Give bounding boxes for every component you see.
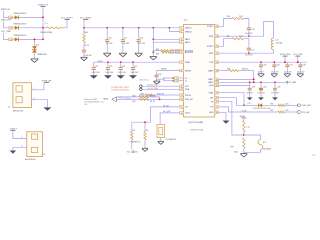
wire: [243, 39, 249, 49]
svg-text:13: 13: [181, 95, 183, 97]
pin 14 ILIM_HZ: [180, 98, 184, 101]
svg-text:2.2R: 2.2R: [239, 16, 243, 18]
svg-text:C17: C17: [124, 37, 127, 39]
capacitor C23: [107, 62, 109, 67]
svg-text:R27: R27: [227, 36, 230, 38]
svg-text:1uH 10A: 1uH 10A: [276, 42, 283, 45]
wire CE: [150, 107, 179, 122]
svg-text:S3 GND_QON_DET1: S3 GND_QON_DET1: [111, 89, 129, 91]
svg-text:C28: C28: [158, 74, 161, 76]
node: [248, 52, 250, 54]
svg-text:0.1uF 50V: 0.1uF 50V: [83, 55, 92, 57]
ground: [271, 73, 277, 75]
svg-text:11: 11: [10, 39, 12, 41]
wire: [4, 21, 9, 28]
capacitor C27 47nF: [247, 47, 251, 49]
resistor R92: [229, 70, 238, 72]
wire: [93, 69, 95, 75]
svg-text:10uF 25V: 10uF 25V: [284, 71, 292, 73]
pin 28 QON: [215, 84, 219, 87]
ground: [223, 121, 230, 124]
wire BAT2 VCC_BAT rail: [219, 81, 286, 83]
node: [169, 27, 171, 29]
svg-text:7: 7: [181, 62, 182, 64]
svg-text:C33: C33: [252, 86, 255, 88]
fuse F1 TE0608-CRMF: [43, 27, 47, 29]
svg-text:19: 19: [216, 71, 218, 73]
wire: [107, 69, 109, 75]
wire QON: [219, 82, 250, 85]
node: [248, 35, 250, 37]
svg-text:VBUS_INT: VBUS_INT: [1, 20, 12, 22]
svg-text:10: 10: [176, 81, 178, 83]
wire: [19, 27, 43, 29]
svg-text:R99: R99: [231, 147, 234, 149]
pin 5 ACDRV1: [180, 49, 184, 52]
wire: [249, 90, 251, 98]
node: [152, 38, 154, 40]
svg-text:12: 12: [181, 89, 183, 91]
svg-text:R_ILIM=KILIM/RILIM T_Lxx: R_ILIM=KILIM/RILIM T_Lxx: [84, 102, 104, 104]
svg-text:PMID: PMID: [185, 62, 191, 64]
ground: [150, 56, 157, 58]
wire: [260, 90, 262, 98]
pin 23 SW1: [215, 35, 219, 38]
diode D1 PMEG6010ELR: [15, 15, 19, 19]
svg-text:C31: C31: [290, 64, 293, 66]
wire: [37, 83, 44, 90]
capacitor C17: [122, 28, 124, 40]
wire: [243, 149, 245, 154]
wire: [138, 42, 140, 54]
wire ILIM lower: [117, 98, 180, 100]
ground: [258, 97, 264, 100]
wire BATP: [219, 70, 229, 72]
pin 18 BAT1: [215, 78, 219, 81]
ground: [10, 151, 17, 154]
svg-text:REGN: REGN: [103, 99, 109, 101]
svg-text:VCC_USB: VCC_USB: [1, 31, 11, 33]
ground: [297, 73, 303, 75]
svg-text:S3_TP: S3_TP: [150, 101, 156, 103]
jumper J8: [140, 88, 143, 91]
pin 22 BTST2: [215, 45, 219, 48]
pin 16: [9, 16, 13, 19]
svg-text:R26: R26: [227, 16, 230, 18]
wire: [244, 135, 261, 139]
wire: [285, 111, 298, 113]
svg-text:10uF 50V: 10uF 50V: [118, 72, 127, 74]
capacitor C24: [120, 62, 122, 67]
connector J6: [13, 83, 32, 108]
node: [83, 27, 85, 29]
pin 26 INT: [215, 96, 219, 99]
svg-text:PMEG6010ELR: PMEG6010ELR: [14, 13, 27, 15]
pin 20 SYS: [215, 61, 219, 64]
svg-text:R68: R68: [156, 49, 159, 51]
node: [249, 81, 251, 83]
capacitor C18: [138, 28, 140, 40]
svg-text:ILIM_HZ: ILIM_HZ: [185, 99, 193, 101]
TVS diode D19 SMBJ24CA: [34, 39, 36, 46]
capacitor C25: [132, 62, 134, 67]
svg-text:REGN: REGN: [161, 69, 167, 71]
node: [132, 61, 134, 63]
wire: [285, 104, 298, 106]
ground: [117, 75, 125, 79]
node: [284, 61, 286, 63]
wire PROG: [139, 94, 180, 96]
pin 15: [9, 26, 13, 29]
svg-text:PMEG6010ELR: PMEG6010ELR: [14, 24, 27, 26]
wire: [248, 50, 250, 53]
node: [297, 61, 299, 63]
svg-text:8: 8: [181, 70, 182, 72]
svg-text:VCC: VCC: [127, 151, 131, 153]
svg-text:C27: C27: [251, 49, 254, 51]
svg-text:QTLP600C4TR-PB 1-PB: QTLP600C4TR-PB 1-PB: [253, 108, 271, 110]
node: [253, 79, 255, 81]
pin 10 D-: [175, 79, 179, 82]
pin 27 STAT: [215, 91, 219, 94]
svg-text:S3_I2C_SCL: S3_I2C_SCL: [148, 85, 158, 87]
capacitor C33: [249, 82, 251, 88]
wire: [253, 71, 255, 83]
svg-text:A09-0517-ND: A09-0517-ND: [13, 109, 24, 112]
svg-text:Measured by MSP: Measured by MSP: [84, 99, 97, 101]
ground: [240, 153, 247, 155]
svg-text:VCM_TN: VCM_TN: [157, 94, 165, 96]
svg-text:0.1uF 50V: 0.1uF 50V: [91, 72, 100, 74]
wire PG row: [219, 107, 279, 112]
resistor R60: [146, 94, 154, 96]
wire: [248, 30, 250, 37]
node: [152, 27, 154, 29]
resistor R68: [153, 50, 161, 52]
wire BAT1: [219, 78, 254, 80]
wire: [262, 104, 280, 106]
svg-text:30.1k: 30.1k: [234, 151, 238, 153]
svg-text:21: 21: [216, 53, 218, 55]
wire: [160, 138, 162, 142]
jumper J7: [140, 85, 143, 88]
wire BTST2: [219, 39, 232, 47]
svg-text:J4: J4: [43, 154, 45, 156]
wire VAC2: [153, 39, 183, 42]
wire node: [132, 121, 151, 123]
ground: [90, 75, 98, 79]
wire: [286, 67, 288, 74]
wire: [4, 11, 9, 18]
svg-text:VBUS_IN: VBUS_IN: [1, 9, 10, 11]
wire: [152, 52, 154, 56]
resistor R98 5.1k: [243, 118, 245, 120]
pin 4 VAC2: [180, 41, 184, 44]
wire: [159, 97, 161, 99]
ground: [81, 56, 88, 58]
pin 30 GND: [215, 111, 219, 114]
connector J4: [27, 132, 43, 157]
svg-text:20.7k: 20.7k: [84, 45, 88, 47]
svg-text:QON: QON: [185, 113, 190, 115]
diode D3 PMEG6010ELR: [15, 37, 19, 41]
wire: [243, 19, 249, 28]
svg-text:U10: U10: [184, 20, 187, 22]
node: [106, 27, 108, 29]
pin 2 VBUS2: [180, 30, 184, 33]
svg-text:C16: C16: [108, 37, 111, 39]
LED D11 QTLP600C: [259, 103, 263, 107]
svg-text:QON: QON: [209, 85, 214, 87]
wire: [170, 51, 184, 53]
node: [42, 17, 44, 19]
svg-text:24: 24: [216, 26, 218, 28]
svg-text:R58: R58: [132, 95, 135, 97]
svg-text:10uF 50V: 10uF 50V: [105, 72, 114, 74]
svg-text:29: 29: [216, 107, 218, 109]
wire: [244, 104, 259, 106]
node: [107, 61, 109, 63]
svg-text:2: 2: [181, 31, 182, 33]
svg-text:SDA: SDA: [185, 88, 190, 91]
wire: [13, 16, 15, 18]
pin 19 BATP: [215, 69, 219, 72]
svg-text:C29: C29: [263, 64, 266, 66]
svg-text:SMBJ24CA: SMBJ24CA: [37, 53, 47, 56]
pin 2: [32, 99, 37, 101]
capacitor C28a: [156, 71, 158, 76]
svg-text:R69: R69: [156, 54, 159, 56]
wire: [13, 38, 15, 40]
svg-text:BQ25792RQMR: BQ25792RQMR: [189, 122, 204, 124]
svg-text:28: 28: [216, 85, 218, 87]
svg-text:C35: C35: [277, 86, 280, 88]
svg-text:27: 27: [216, 93, 218, 95]
ground: [284, 73, 290, 75]
capacitor C31: [286, 62, 288, 65]
pin 7 PMID: [180, 61, 184, 64]
node: [122, 27, 124, 29]
svg-text:REGN: REGN: [185, 70, 191, 72]
node: [42, 39, 44, 41]
ground: [119, 52, 127, 54]
capacitor C29: [260, 62, 262, 65]
svg-text:STAT: STAT: [209, 92, 215, 95]
wire SW1: [219, 22, 274, 38]
svg-text:47k: 47k: [132, 130, 135, 132]
svg-text:VAC2: VAC2: [185, 41, 191, 44]
ground: [129, 75, 137, 79]
svg-text:SYS: SYS: [209, 62, 214, 64]
net arrow ILIM: [112, 97, 117, 102]
ground: [272, 97, 278, 100]
resistor R99: [243, 138, 245, 149]
wire: [284, 56, 286, 62]
svg-text:14: 14: [181, 99, 183, 101]
svg-text:D11: D11: [248, 103, 251, 105]
ground: [154, 80, 161, 82]
node: [152, 51, 154, 53]
svg-text:1: 1: [22, 137, 23, 139]
ground: [103, 52, 111, 54]
pin 25 TS: [215, 100, 219, 103]
ground: [104, 75, 112, 79]
svg-text:TS-1187A-C-H: TS-1187A-C-H: [166, 138, 177, 141]
svg-text:10k B3435: 10k B3435: [263, 148, 271, 150]
svg-text:25: 25: [216, 102, 218, 104]
capacitor C34: [260, 82, 262, 88]
svg-text:10uF 50V: 10uF 50V: [257, 93, 265, 95]
wire D-: [163, 80, 175, 82]
resistor R59: [139, 98, 149, 100]
capacitor C16: [106, 28, 108, 40]
wire SCL: [142, 85, 179, 87]
inductor L10 1uH: [271, 38, 273, 49]
wire: [13, 131, 27, 139]
wire: [13, 147, 27, 150]
svg-text:S3_I2C_SDA: S3_I2C_SDA: [148, 87, 159, 90]
wire: [244, 150, 261, 153]
svg-text:10uF 50V: 10uF 50V: [271, 93, 279, 95]
svg-text:C30: C30: [277, 64, 280, 66]
pin 13 PROG: [180, 94, 184, 97]
svg-text:PROG: PROG: [185, 95, 191, 97]
thermistor TH10 NTC: [258, 139, 263, 149]
resistor R63: [144, 122, 146, 131]
svg-text:R59: R59: [132, 101, 135, 103]
wire D+: [163, 77, 175, 79]
pin 12 SDA: [180, 88, 184, 91]
wire: [106, 42, 108, 54]
net arrow CHG_LED: [298, 104, 302, 107]
capacitor C26 47nF: [247, 27, 251, 29]
node: [273, 61, 275, 63]
svg-text:47k: 47k: [146, 130, 149, 132]
svg-text:CHG_LED: CHG_LED: [302, 105, 312, 107]
pin net ties: [170, 51, 173, 53]
wire: [273, 49, 275, 53]
wire: [4, 33, 9, 40]
svg-text:47nF 50V: 47nF 50V: [245, 55, 253, 57]
pin 8 REGN: [180, 69, 184, 72]
wire BTST1: [219, 19, 232, 27]
svg-text:NL_CE: NL_CE: [163, 105, 169, 107]
wire: [144, 140, 146, 148]
ground: [158, 140, 164, 142]
node: [138, 27, 140, 29]
svg-text:USB_DM 0.1: USB_DM 0.1: [139, 80, 149, 82]
node: [120, 61, 122, 63]
svg-text:R92: R92: [227, 69, 230, 71]
svg-text:2: 2: [33, 98, 34, 100]
svg-text:S3_TN: S3_TN: [150, 95, 156, 97]
wire QON: [160, 113, 180, 125]
wire STAT: [219, 93, 244, 106]
svg-text:4: 4: [181, 42, 182, 44]
svg-text:D19: D19: [36, 45, 39, 47]
pin 11: [9, 38, 13, 41]
svg-text:1uF 50V: 1uF 50V: [106, 43, 114, 45]
ground: [43, 107, 51, 110]
wire: [260, 67, 262, 74]
svg-text:1: 1: [181, 28, 182, 30]
svg-text:A09-0518-ND: A09-0518-ND: [25, 158, 36, 161]
resistor R66: [83, 28, 85, 34]
svg-text:15: 15: [10, 28, 12, 30]
capacitor C22: [93, 62, 95, 67]
wire VUSB rail: [42, 7, 44, 40]
svg-text:F1: F1: [46, 23, 48, 25]
svg-text:PG_AT: PG_AT: [241, 109, 246, 112]
svg-text:5.1k: 5.1k: [246, 126, 249, 128]
svg-text:20: 20: [216, 62, 218, 64]
node: [260, 61, 262, 63]
wire: [64, 20, 67, 28]
wire PVDD rail: [94, 61, 184, 63]
wire: [299, 67, 301, 74]
wire: [131, 140, 133, 149]
wire: [19, 16, 43, 18]
svg-text:BATP: BATP: [208, 69, 214, 72]
pin 11 SCL: [180, 85, 184, 88]
wire TS: [219, 102, 244, 135]
resistor R62: [131, 122, 133, 131]
wire: [120, 69, 122, 75]
node: [243, 104, 245, 106]
capacitor C35: [274, 82, 276, 88]
ground: [258, 73, 264, 75]
wire: [170, 50, 184, 52]
node: [260, 81, 262, 83]
wire: [239, 70, 254, 72]
wire GND pin: [219, 112, 226, 120]
resistor R69: [161, 51, 170, 53]
resistor R96: [278, 104, 284, 106]
svg-text:C34: C34: [263, 86, 266, 88]
wire: [274, 90, 276, 98]
ground: [135, 52, 143, 54]
svg-text:D-: D-: [185, 81, 187, 83]
svg-text:PMEG6010ELR: PMEG6010ELR: [14, 35, 27, 37]
pin 15 CE: [180, 106, 184, 109]
svg-text:TE0608-CRMF: TE0608-CRMF: [40, 32, 53, 34]
pin 16 QON: [180, 112, 184, 115]
wire VBUS rail: [84, 27, 184, 29]
svg-text:C32: C32: [303, 64, 306, 66]
svg-text:15: 15: [181, 107, 183, 109]
svg-text:GND: GND: [209, 112, 214, 114]
pin 24 BTST1: [215, 25, 219, 28]
node: [253, 81, 255, 83]
svg-text:1.8x: 1.8x: [312, 154, 315, 156]
svg-text:22: 22: [216, 46, 218, 48]
wire: [297, 56, 299, 62]
node: [159, 98, 161, 100]
pin 9 D+: [175, 77, 179, 80]
resistor R58: [139, 96, 149, 98]
diode D2 PMEG6010ELR: [15, 26, 19, 30]
wire: [83, 20, 85, 28]
wire: [13, 27, 15, 29]
node: [42, 27, 44, 29]
label VCC_BAT: [286, 81, 288, 83]
svg-text:VBUS2: VBUS2: [185, 31, 192, 33]
pin 17 BAT2: [215, 81, 219, 84]
svg-text:30: 30: [216, 112, 218, 114]
capacitor C30: [273, 62, 275, 65]
wire: [273, 67, 275, 74]
svg-text:C26: C26: [251, 29, 254, 31]
